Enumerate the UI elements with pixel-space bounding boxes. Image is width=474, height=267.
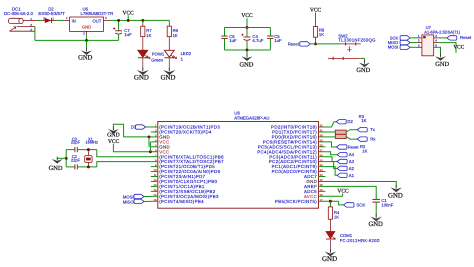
svg-text:16MHz: 16MHz	[85, 140, 98, 145]
svg-text:OUT: OUT	[93, 19, 102, 24]
svg-text:26: 26	[320, 153, 324, 157]
svg-text:Tx: Tx	[370, 127, 376, 132]
svg-text:28: 28	[320, 143, 324, 147]
svg-text:GND: GND	[356, 67, 370, 74]
svg-text:MOSI: MOSI	[388, 45, 398, 50]
svg-text:FC-2012HRK-620D: FC-2012HRK-620D	[340, 238, 380, 243]
svg-text:Rx: Rx	[370, 137, 376, 142]
svg-text:LED2: LED2	[181, 51, 192, 56]
svg-text:GND: GND	[388, 192, 403, 199]
svg-text:GND: GND	[161, 74, 176, 81]
svg-text:VCC: VCC	[337, 188, 349, 194]
svg-text:4.7uF: 4.7uF	[252, 38, 263, 43]
svg-text:1K: 1K	[361, 118, 366, 123]
svg-text:14: 14	[153, 188, 157, 192]
svg-text:TL3301NF260QG: TL3301NF260QG	[338, 38, 376, 43]
svg-text:MISO: MISO	[123, 199, 134, 204]
svg-text:15: 15	[153, 193, 157, 197]
svg-text:ATMEGA328P-AU: ATMEGA328P-AU	[234, 115, 269, 120]
svg-text:27: 27	[320, 148, 324, 152]
svg-text:21: 21	[320, 178, 324, 182]
svg-text:ES3D-E3/57T: ES3D-E3/57T	[38, 11, 65, 16]
svg-text:16: 16	[153, 198, 157, 202]
svg-text:GND: GND	[368, 221, 383, 228]
svg-text:SCK: SCK	[356, 202, 365, 207]
svg-text:D2: D2	[347, 119, 353, 124]
svg-text:1K: 1K	[319, 32, 324, 37]
svg-text:17: 17	[320, 198, 324, 202]
svg-text:A2: A2	[349, 166, 355, 171]
svg-text:10: 10	[153, 168, 157, 172]
svg-text:22: 22	[320, 173, 324, 177]
svg-text:DC-005-5A-2.0: DC-005-5A-2.0	[4, 11, 34, 16]
svg-text:18: 18	[320, 193, 324, 197]
svg-text:22pF: 22pF	[71, 140, 81, 145]
svg-text:12: 12	[153, 178, 157, 182]
svg-text:25: 25	[320, 158, 324, 162]
svg-text:1K: 1K	[334, 215, 339, 220]
svg-text:PB5(SCK/PCINT5): PB5(SCK/PCINT5)	[275, 199, 317, 204]
svg-text:Green: Green	[151, 57, 163, 62]
svg-text:22pF: 22pF	[71, 157, 81, 162]
svg-text:GND: GND	[435, 61, 449, 68]
svg-text:30: 30	[320, 134, 324, 138]
svg-text:100nF: 100nF	[381, 202, 393, 207]
svg-text:1K: 1K	[362, 148, 367, 153]
svg-text:1K: 1K	[146, 33, 151, 38]
svg-text:23: 23	[320, 168, 324, 172]
svg-text:L7805ABD2T-TR: L7805ABD2T-TR	[81, 11, 114, 16]
svg-text:GND: GND	[107, 133, 120, 139]
svg-text:1uF: 1uF	[124, 32, 132, 37]
svg-text:A4: A4	[349, 152, 355, 157]
svg-text:IN: IN	[72, 19, 76, 24]
svg-text:GND: GND	[82, 24, 91, 29]
svg-text:32: 32	[320, 124, 324, 128]
svg-text:1K: 1K	[173, 33, 178, 38]
svg-text:Reset: Reset	[288, 41, 300, 46]
svg-text:Reset: Reset	[348, 144, 359, 149]
svg-text:24: 24	[320, 163, 324, 167]
svg-text:11: 11	[154, 173, 157, 177]
svg-text:A3: A3	[349, 159, 355, 164]
svg-text:GND: GND	[239, 61, 253, 68]
svg-text:1uF: 1uF	[229, 38, 237, 43]
svg-text:POW1: POW1	[152, 51, 165, 56]
svg-text:GND: GND	[78, 54, 93, 61]
svg-text:A1: A1	[349, 173, 355, 178]
svg-text:GND: GND	[134, 74, 149, 81]
svg-text:A1-6PA-2.5DSA(71): A1-6PA-2.5DSA(71)	[424, 29, 460, 34]
svg-text:VCC: VCC	[453, 45, 464, 51]
svg-text:31: 31	[320, 129, 324, 133]
svg-text:GND: GND	[322, 255, 337, 263]
svg-text:(PCINT4/MISO)PB4: (PCINT4/MISO)PB4	[159, 199, 204, 204]
svg-text:GND: GND	[49, 165, 63, 172]
svg-text:19: 19	[320, 188, 324, 192]
svg-text:20: 20	[320, 183, 324, 187]
svg-text:13: 13	[153, 183, 157, 187]
svg-text:29: 29	[320, 138, 324, 142]
svg-text:1uF: 1uF	[274, 38, 282, 43]
svg-text:Reset: Reset	[460, 35, 472, 40]
